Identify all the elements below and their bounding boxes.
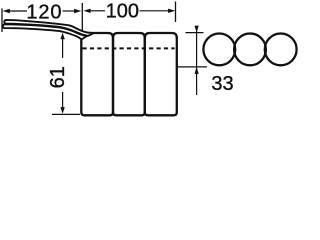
dim 61 bottom arrowhead [60,107,64,114]
dim 100 right arrowhead [168,9,175,13]
dim 100 line right segment [140,10,169,12]
battery pack side view: cell 2 [113,33,145,115]
dim 100 left arrowhead [83,9,90,13]
end view: cell circle 2 [234,34,266,66]
battery pack side view: cell 3 [145,33,177,115]
flat cable upper conductor band [4,20,94,36]
dim 120 line left segment [10,10,28,12]
dim 61 vertical line upper segment [62,36,64,58]
dim 61 vertical line lower segment [62,92,64,108]
dim 33 vertical line [196,28,198,96]
battery pack side view: cell 1 [81,33,113,115]
end view: cell circle 1 [203,34,235,66]
dim 120 left arrowhead [3,9,10,13]
extension line top of circles for dim 33 [186,32,204,34]
end view: cell circle 3 [265,34,297,66]
extension line left (cable tip) for dim 120 [1,9,3,33]
shared extension tick between 120 and 100 [81,3,83,34]
flat cable lower conductor band [3,24,87,39]
dim 33 top arrowhead (outside, points down) [195,26,199,33]
extension line bottom-left for dim 61 [52,113,80,115]
hidden (dashed) shrink-wrap line across pack [83,47,175,49]
extension line bottom of circles for dim 33 [177,66,207,68]
svg-text:120: 120 [26,2,62,24]
dim 61 top arrowhead (points up to cable underside) [60,33,64,40]
dim 120 right arrowhead [74,9,81,13]
svg-text:33: 33 [211,73,233,95]
dim 120 line right segment [63,10,76,12]
svg-text:61: 61 [47,66,69,88]
dim 33 bottom arrowhead (outside, points up) [195,67,199,74]
extension line right of pack for dim 100 [175,2,177,23]
dim 100 line left segment [90,10,105,12]
svg-text:100: 100 [106,1,139,23]
